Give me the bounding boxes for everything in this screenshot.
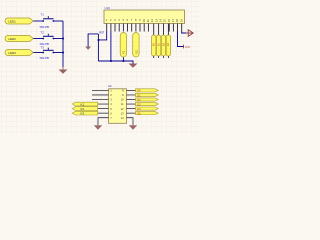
port D2 (136, 98, 159, 102)
port group narrow pill c (161, 35, 165, 56)
svg-text:LED2: LED2 (9, 37, 17, 41)
port D3 (136, 102, 159, 106)
wire vertical bus of switches (62, 21, 64, 67)
svg-text:10: 10 (121, 98, 124, 102)
svg-text:X1: X1 (121, 50, 125, 54)
wire row3 switch to bus (53, 52, 63, 54)
port X2 vertical pill 2 (133, 33, 139, 58)
port D0 (136, 89, 159, 93)
power ground center (129, 64, 138, 68)
junction pin2 wire (110, 60, 112, 62)
pin numbers U2 left (110, 89, 112, 120)
svg-text:T2: T2 (41, 30, 45, 34)
pins U10 bottom stubs (107, 24, 182, 36)
wire ground rail under U10 (98, 61, 133, 64)
svg-text:LED3: LED3 (9, 51, 17, 55)
port X1 vertical pill 1 (120, 33, 126, 58)
wire row2 switch to bus (53, 38, 63, 40)
power ground left small (85, 47, 91, 50)
switch T3 (SW-PB) (40, 45, 55, 60)
power ground U2 left (94, 125, 102, 130)
svg-text:D2: D2 (137, 98, 141, 102)
svg-text:D4: D4 (137, 107, 141, 111)
power port VCC bar (184, 45, 191, 49)
svg-text:D5: D5 (137, 111, 141, 115)
IC U10 body (104, 6, 185, 24)
wire cap1 bottom stub (122, 57, 124, 61)
pin numbers U10 (106, 18, 184, 22)
svg-text:SW-PB: SW-PB (40, 25, 49, 29)
power ground under switch bus (59, 67, 68, 74)
wires U2 right pins rows 1-6 (127, 90, 136, 113)
wire U2 left row4 (98, 103, 109, 105)
svg-text:VCC: VCC (185, 45, 191, 49)
svg-text:K2: K2 (81, 107, 85, 111)
wire row3 from port to switch S3 (33, 52, 43, 54)
junction pin1 wire (98, 39, 100, 41)
svg-text:K3: K3 (81, 112, 85, 116)
power ground U2 right (129, 125, 137, 130)
svg-text:X2: X2 (135, 50, 139, 54)
wire row1 switch to bus (53, 20, 63, 22)
wire pin2 down (110, 32, 112, 62)
port D4 (136, 107, 159, 111)
svg-text:D0: D0 (137, 89, 141, 93)
port K1 (72, 102, 97, 106)
svg-text:U2: U2 (108, 84, 112, 88)
svg-text:12: 12 (121, 107, 124, 111)
svg-text:SW-PB: SW-PB (40, 56, 49, 60)
wire pin1 down-left (RST net) (88, 32, 107, 62)
svg-text:LED1: LED1 (9, 20, 17, 24)
wire U2 left row5 (98, 108, 109, 110)
port D1 (136, 93, 159, 97)
switch T1 (SW-PB) (40, 12, 55, 29)
port group narrow pill b (156, 35, 160, 56)
wires U2 left pins rows 1-3 (92, 90, 109, 99)
port S1 (left pill) (5, 18, 33, 24)
pin numbers U2 right (121, 89, 125, 120)
port K2 (72, 107, 97, 111)
port group narrow pill a (152, 35, 156, 56)
wire pin19 to VCC arrow (182, 32, 187, 34)
svg-text:U10: U10 (105, 6, 111, 10)
power port VCC arrow right (186, 30, 193, 37)
port S3 (left pill) (5, 50, 33, 56)
wire pin18 to VCC bar (178, 32, 184, 47)
svg-text:D3: D3 (137, 102, 141, 106)
svg-text:K1: K1 (81, 102, 85, 106)
switch T2 (SW-PB) (40, 30, 55, 46)
port S2 (left pill) (5, 36, 33, 42)
svg-text:14: 14 (121, 116, 124, 120)
svg-text:13: 13 (121, 111, 124, 115)
wire U2 right row7 to ground (127, 118, 134, 126)
svg-text:D1: D1 (137, 93, 141, 97)
svg-text:19: 19 (179, 19, 183, 23)
junction bus row3 (62, 52, 64, 54)
svg-text:T3: T3 (41, 45, 45, 49)
wire U2 left row7 to ground (98, 118, 109, 126)
pin stubs below narrow pills (154, 56, 169, 58)
svg-text:11: 11 (121, 102, 124, 106)
port K3 (72, 111, 97, 115)
junction bus row2 (62, 38, 64, 40)
junction cap1 (123, 60, 125, 62)
wire row2 from port to switch S2 (33, 38, 43, 40)
port D5 (136, 111, 159, 115)
port group narrow pill d (166, 35, 170, 56)
wire row1 from port to switch S1 (33, 20, 43, 22)
wire U2 left row6 (98, 112, 109, 114)
svg-text:RST: RST (99, 31, 104, 34)
IC U2 body (108, 84, 127, 123)
svg-text:T1: T1 (41, 12, 45, 16)
